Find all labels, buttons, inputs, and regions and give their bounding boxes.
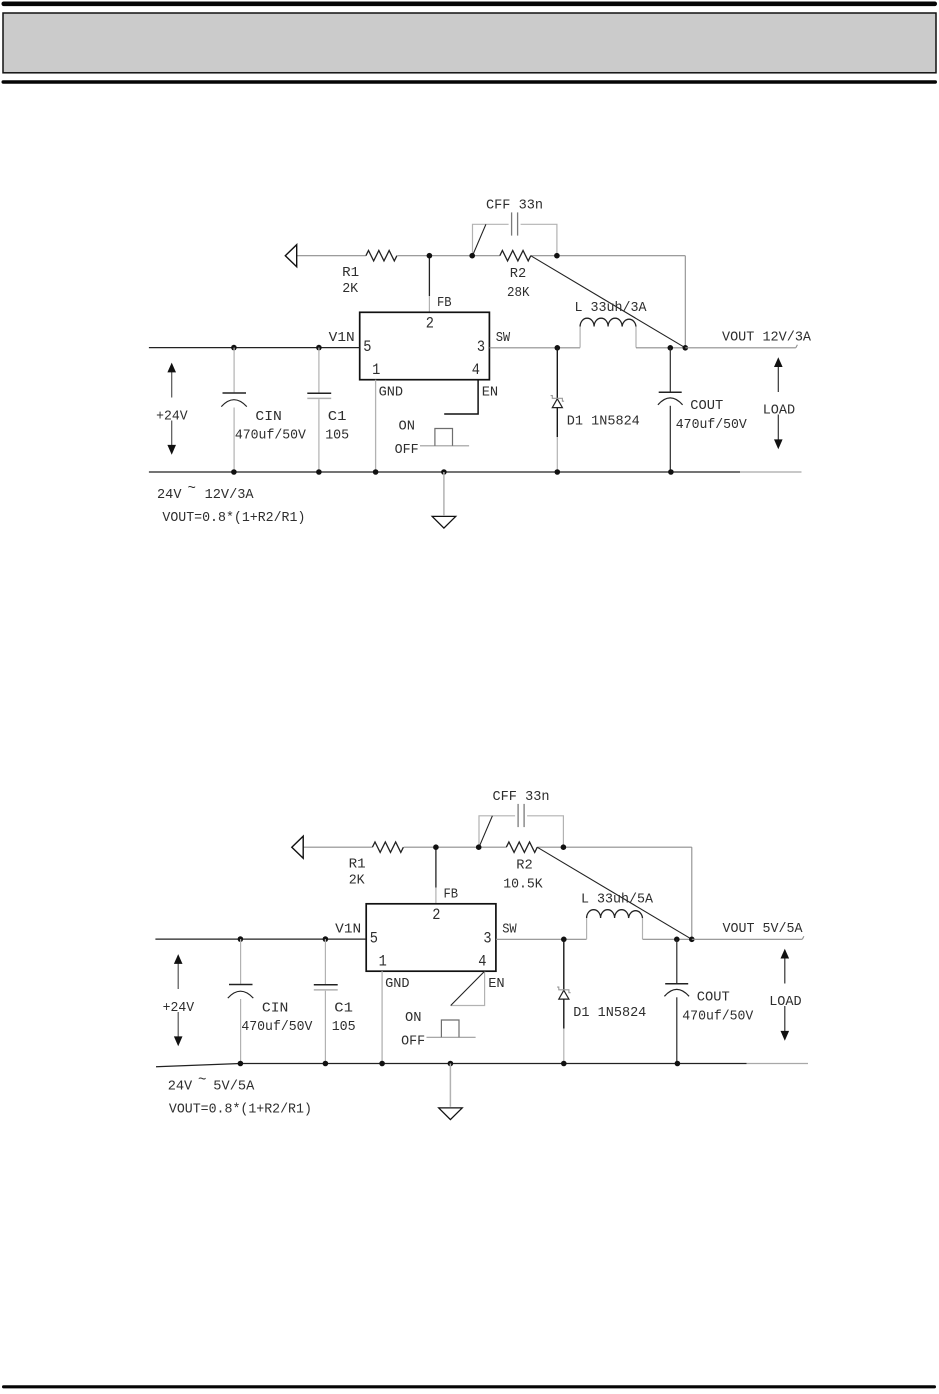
svg-text:CIN: CIN	[255, 409, 282, 425]
svg-text:3: 3	[477, 338, 485, 356]
svg-text:COUT: COUT	[690, 398, 723, 414]
svg-text:LOAD: LOAD	[763, 403, 796, 419]
svg-text:~: ~	[188, 481, 196, 497]
svg-text:+24V: +24V	[156, 409, 188, 425]
svg-text:470uf/50V: 470uf/50V	[676, 417, 748, 433]
svg-text:R1: R1	[349, 857, 366, 873]
svg-text:OFF: OFF	[395, 442, 419, 458]
svg-text:EN: EN	[488, 976, 505, 992]
svg-text:2: 2	[426, 314, 434, 332]
svg-text:CFF 33n: CFF 33n	[493, 789, 550, 805]
svg-text:FB: FB	[437, 295, 452, 311]
svg-text:10.5K: 10.5K	[503, 877, 543, 893]
svg-text:CFF 33n: CFF 33n	[486, 198, 543, 214]
svg-text:ON: ON	[405, 1010, 422, 1026]
svg-text:2K: 2K	[349, 872, 366, 888]
svg-text:5V/5A: 5V/5A	[213, 1078, 255, 1094]
svg-text:V1N: V1N	[329, 330, 355, 346]
svg-text:470uf/50V: 470uf/50V	[241, 1019, 313, 1035]
svg-text:D1 1N5824: D1 1N5824	[567, 414, 640, 430]
svg-text:28K: 28K	[507, 285, 530, 301]
svg-text:R2: R2	[516, 858, 533, 874]
svg-text:1: 1	[379, 953, 387, 971]
svg-text:CIN: CIN	[262, 1001, 289, 1017]
svg-text:105: 105	[332, 1019, 356, 1035]
svg-text:LOAD: LOAD	[769, 994, 802, 1010]
svg-text:105: 105	[325, 428, 349, 444]
svg-text:L 33uh/3A: L 33uh/3A	[575, 300, 648, 316]
svg-text:24V: 24V	[157, 487, 182, 503]
svg-text:R2: R2	[510, 266, 527, 282]
svg-text:OFF: OFF	[401, 1033, 425, 1049]
svg-text:D1 1N5824: D1 1N5824	[573, 1005, 646, 1021]
svg-text:C1: C1	[328, 409, 347, 425]
svg-text:EN: EN	[482, 384, 499, 400]
svg-text:ON: ON	[399, 418, 416, 434]
svg-text:C1: C1	[334, 1001, 353, 1017]
svg-text:L 33uh/5A: L 33uh/5A	[581, 892, 654, 908]
svg-text:5: 5	[370, 930, 378, 948]
svg-text:12V/3A: 12V/3A	[205, 487, 255, 503]
svg-text:VOUT 12V/3A: VOUT 12V/3A	[722, 329, 812, 345]
svg-text:470uf/50V: 470uf/50V	[235, 428, 307, 444]
svg-text:V1N: V1N	[335, 922, 361, 938]
svg-text:2: 2	[432, 906, 440, 924]
svg-text:VOUT=0.8*(1+R2/R1): VOUT=0.8*(1+R2/R1)	[169, 1102, 312, 1118]
svg-text:~: ~	[198, 1073, 206, 1089]
svg-text:COUT: COUT	[697, 990, 730, 1006]
svg-text:4: 4	[478, 953, 486, 971]
svg-text:SW: SW	[496, 330, 511, 346]
svg-text:R1: R1	[342, 265, 359, 281]
svg-text:VOUT=0.8*(1+R2/R1): VOUT=0.8*(1+R2/R1)	[162, 510, 305, 526]
svg-text:GND: GND	[379, 384, 404, 400]
svg-text:1: 1	[372, 361, 380, 379]
svg-text:+24V: +24V	[163, 1000, 195, 1016]
svg-text:SW: SW	[502, 922, 517, 938]
svg-text:FB: FB	[444, 887, 459, 903]
svg-text:2K: 2K	[342, 281, 359, 297]
svg-text:24V: 24V	[168, 1078, 193, 1094]
svg-text:3: 3	[483, 930, 491, 948]
svg-text:470uf/50V: 470uf/50V	[682, 1009, 754, 1025]
svg-text:VOUT 5V/5A: VOUT 5V/5A	[723, 921, 804, 937]
svg-text:5: 5	[363, 338, 371, 356]
svg-text:GND: GND	[385, 976, 410, 992]
svg-text:4: 4	[472, 361, 480, 379]
